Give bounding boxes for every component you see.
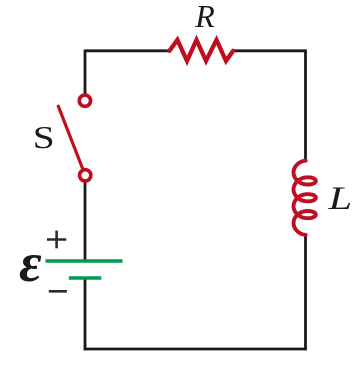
battery V1 positive plate bbox=[46, 259, 123, 262]
wire left mid vertical (switch to battery) bbox=[84, 181, 87, 260]
wire top-right horizontal bbox=[233, 49, 306, 52]
battery V1 negative plate bbox=[69, 276, 102, 279]
svg-text:L: L bbox=[327, 180, 352, 217]
svg-text:R: R bbox=[194, 0, 215, 34]
battery polarity minus sign bbox=[49, 290, 67, 293]
battery polarity plus sign bbox=[47, 231, 66, 249]
switch S1 bottom terminal bbox=[80, 170, 91, 181]
inductor L1 coil bbox=[294, 161, 316, 235]
svg-text:S: S bbox=[33, 120, 55, 155]
switch S1 top terminal bbox=[79, 95, 90, 106]
switch S1 blade bbox=[58, 106, 83, 170]
svg-text:ε: ε bbox=[19, 232, 42, 293]
resistor R1 zigzag bbox=[169, 40, 233, 61]
wire left upper vertical bbox=[84, 50, 87, 95]
wire left lower vertical (battery to bottom) bbox=[84, 279, 87, 351]
wire right upper vertical bbox=[304, 50, 307, 160]
wire top-left horizontal bbox=[85, 49, 169, 52]
wire right lower vertical bbox=[304, 236, 307, 350]
wire bottom horizontal bbox=[84, 348, 307, 351]
